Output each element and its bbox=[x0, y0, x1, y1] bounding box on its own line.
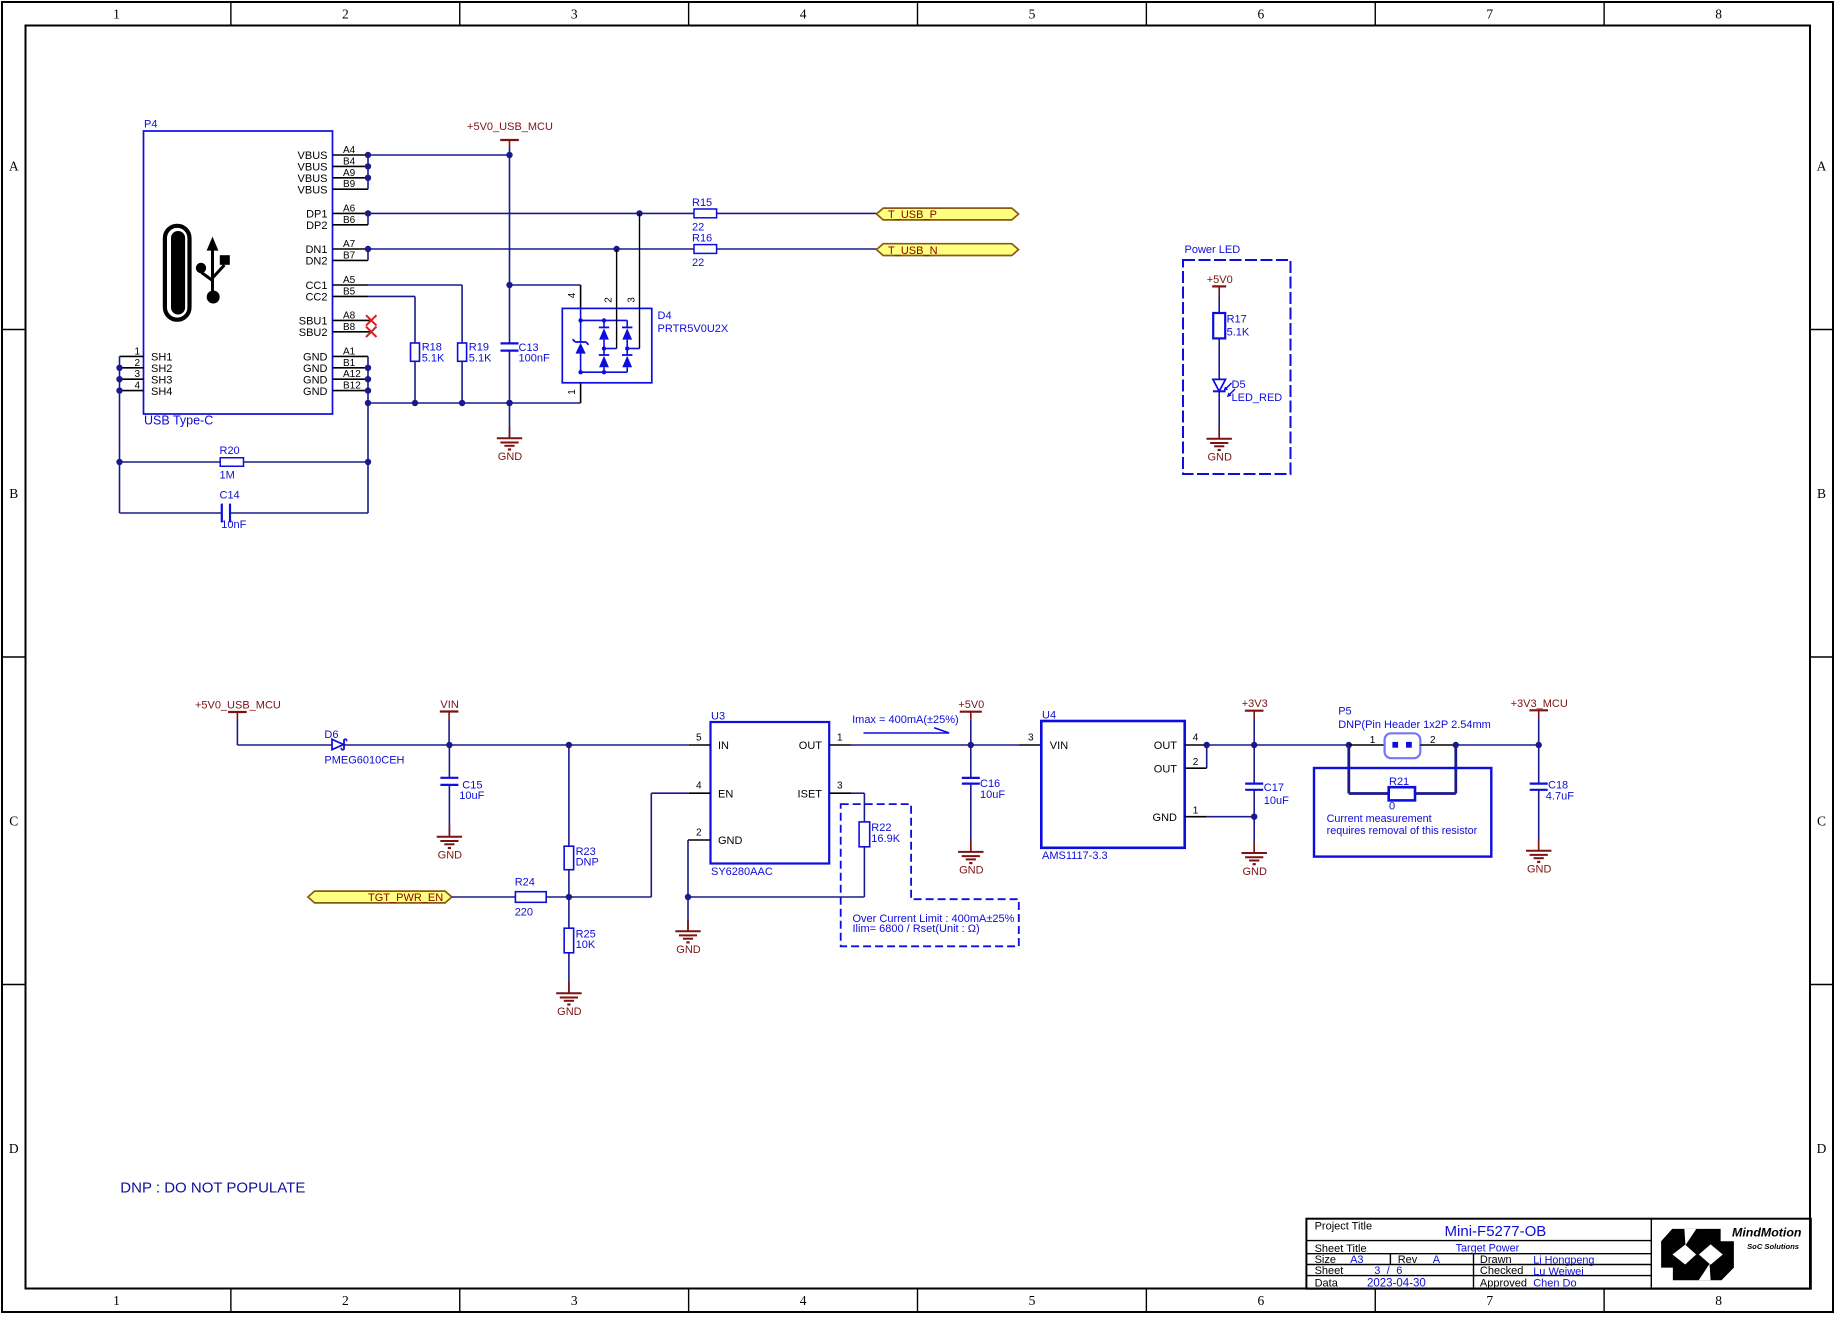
svg-text:CC1: CC1 bbox=[305, 280, 327, 292]
svg-text:2023-04-30: 2023-04-30 bbox=[1367, 1278, 1426, 1290]
svg-text:2: 2 bbox=[604, 297, 615, 303]
svg-text:+5V0: +5V0 bbox=[958, 699, 984, 711]
svg-text:B: B bbox=[1817, 486, 1826, 501]
svg-text:1: 1 bbox=[567, 389, 578, 395]
svg-text:Rev: Rev bbox=[1398, 1254, 1418, 1266]
svg-text:3: 3 bbox=[1028, 732, 1034, 743]
svg-text:C: C bbox=[1817, 813, 1826, 828]
svg-text:EN: EN bbox=[718, 788, 733, 800]
svg-text:A: A bbox=[1817, 158, 1827, 173]
svg-text:GND: GND bbox=[676, 944, 701, 956]
svg-text:5: 5 bbox=[696, 732, 702, 743]
svg-text:Checked: Checked bbox=[1480, 1265, 1523, 1277]
svg-text:5.1K: 5.1K bbox=[469, 352, 492, 364]
svg-text:A6: A6 bbox=[343, 203, 356, 214]
svg-text:Power LED: Power LED bbox=[1185, 244, 1241, 256]
svg-text:B9: B9 bbox=[343, 179, 356, 190]
svg-text:R20: R20 bbox=[220, 445, 240, 457]
svg-text:SBU1: SBU1 bbox=[299, 316, 328, 328]
svg-text:D: D bbox=[1817, 1141, 1827, 1156]
svg-text:A1: A1 bbox=[343, 346, 356, 357]
svg-text:5.1K: 5.1K bbox=[1227, 326, 1250, 338]
svg-text:3: 3 bbox=[627, 297, 638, 303]
svg-text:GND: GND bbox=[1527, 864, 1552, 876]
svg-text:B1: B1 bbox=[343, 358, 356, 369]
svg-text:B5: B5 bbox=[343, 286, 356, 297]
svg-text:GND: GND bbox=[303, 363, 328, 375]
svg-text:R16: R16 bbox=[692, 232, 712, 244]
svg-text:8: 8 bbox=[1715, 1293, 1722, 1308]
svg-text:TGT_PWR_EN: TGT_PWR_EN bbox=[368, 892, 443, 904]
svg-text:VIN: VIN bbox=[1050, 740, 1068, 752]
svg-text:IN: IN bbox=[718, 740, 729, 752]
svg-text:2: 2 bbox=[342, 1293, 349, 1308]
svg-text:CC2: CC2 bbox=[305, 292, 327, 304]
svg-text:1: 1 bbox=[837, 732, 843, 743]
svg-text:PMEG6010CEH: PMEG6010CEH bbox=[324, 754, 404, 766]
svg-text:VBUS: VBUS bbox=[298, 184, 328, 196]
svg-text:+5V0_USB_MCU: +5V0_USB_MCU bbox=[195, 700, 281, 712]
svg-text:Sheet: Sheet bbox=[1315, 1265, 1344, 1277]
svg-text:GND: GND bbox=[303, 352, 328, 364]
svg-text:C18: C18 bbox=[1548, 779, 1568, 791]
svg-text:R17: R17 bbox=[1227, 314, 1247, 326]
svg-text:B12: B12 bbox=[343, 381, 361, 392]
svg-text:Mini-F5277-OB: Mini-F5277-OB bbox=[1445, 1223, 1547, 1240]
svg-text:MindMotion: MindMotion bbox=[1732, 1225, 1802, 1239]
svg-text:DP2: DP2 bbox=[306, 220, 327, 232]
svg-text:1M: 1M bbox=[220, 469, 235, 481]
svg-text:VBUS: VBUS bbox=[298, 150, 328, 162]
svg-text:4: 4 bbox=[800, 6, 807, 21]
svg-text:6: 6 bbox=[1257, 1293, 1264, 1308]
svg-text:1: 1 bbox=[1193, 805, 1199, 816]
svg-text:B7: B7 bbox=[343, 250, 356, 261]
svg-text:B8: B8 bbox=[343, 322, 356, 333]
svg-text:OUT: OUT bbox=[1154, 740, 1178, 752]
svg-text:Drawn: Drawn bbox=[1480, 1254, 1512, 1266]
svg-text:1: 1 bbox=[113, 1293, 120, 1308]
svg-text:B6: B6 bbox=[343, 215, 356, 226]
svg-text:7: 7 bbox=[1486, 6, 1493, 21]
svg-text:4: 4 bbox=[134, 381, 140, 392]
svg-text:DNP: DNP bbox=[576, 856, 599, 868]
svg-text:4: 4 bbox=[1193, 732, 1199, 743]
svg-text:DNP(Pin Header 1x2P 2.54mm: DNP(Pin Header 1x2P 2.54mm bbox=[1338, 719, 1491, 731]
svg-text:A9: A9 bbox=[343, 168, 356, 179]
svg-text:ISET: ISET bbox=[798, 788, 823, 800]
svg-text:Approved: Approved bbox=[1480, 1278, 1527, 1290]
svg-text:4.7uF: 4.7uF bbox=[1546, 791, 1574, 803]
svg-text:requires removal of this resis: requires removal of this resistor bbox=[1327, 825, 1478, 837]
svg-text:3: 3 bbox=[1374, 1265, 1380, 1277]
svg-text:10K: 10K bbox=[576, 939, 596, 951]
svg-text:0: 0 bbox=[1389, 801, 1395, 813]
svg-text:PRTR5V0U2X: PRTR5V0U2X bbox=[658, 323, 729, 335]
svg-text:AMS1117-3.3: AMS1117-3.3 bbox=[1042, 850, 1108, 862]
svg-text:USB Type-C: USB Type-C bbox=[144, 414, 213, 428]
svg-text:D5: D5 bbox=[1232, 379, 1246, 391]
svg-text:+5V0: +5V0 bbox=[1207, 274, 1233, 286]
svg-text:B4: B4 bbox=[343, 156, 356, 167]
svg-text:+3V3_MCU: +3V3_MCU bbox=[1511, 698, 1568, 710]
svg-text:GND: GND bbox=[498, 451, 523, 463]
svg-text:Lu Weiwei: Lu Weiwei bbox=[1533, 1266, 1584, 1278]
svg-text:7: 7 bbox=[1486, 1293, 1493, 1308]
svg-text:A12: A12 bbox=[343, 369, 361, 380]
svg-text:GND: GND bbox=[303, 374, 328, 386]
svg-text:3: 3 bbox=[134, 369, 140, 380]
svg-text:Ilim= 6800 / Rset(Unit : Ω): Ilim= 6800 / Rset(Unit : Ω) bbox=[853, 923, 980, 935]
svg-text:OUT: OUT bbox=[799, 740, 823, 752]
svg-text:16.9K: 16.9K bbox=[871, 833, 900, 845]
svg-text:D6: D6 bbox=[324, 729, 338, 741]
svg-text:SH2: SH2 bbox=[151, 363, 172, 375]
svg-text:C16: C16 bbox=[980, 778, 1000, 790]
svg-text:Chen Do: Chen Do bbox=[1533, 1278, 1576, 1290]
svg-text:GND: GND bbox=[303, 386, 328, 398]
svg-text:GND: GND bbox=[1207, 452, 1232, 464]
svg-text:T_USB_P: T_USB_P bbox=[888, 209, 937, 221]
svg-text:D4: D4 bbox=[658, 310, 672, 322]
svg-text:2: 2 bbox=[696, 827, 702, 838]
svg-text:10uF: 10uF bbox=[980, 789, 1005, 801]
svg-text:1: 1 bbox=[134, 346, 140, 357]
svg-text:+5V0_USB_MCU: +5V0_USB_MCU bbox=[467, 121, 553, 133]
svg-text:GND: GND bbox=[1242, 866, 1267, 878]
svg-text:A8: A8 bbox=[343, 310, 356, 321]
svg-text:DP1: DP1 bbox=[306, 209, 327, 221]
svg-text:A5: A5 bbox=[343, 275, 356, 286]
svg-text:Project Title: Project Title bbox=[1315, 1221, 1372, 1233]
svg-text:5: 5 bbox=[1029, 1293, 1036, 1308]
svg-text:A4: A4 bbox=[343, 145, 356, 156]
svg-text:GND: GND bbox=[718, 835, 743, 847]
svg-text:Imax = 400mA(±25%): Imax = 400mA(±25%) bbox=[852, 714, 959, 726]
svg-text:2: 2 bbox=[342, 6, 349, 21]
svg-text:GND: GND bbox=[557, 1006, 582, 1018]
svg-text:6: 6 bbox=[1396, 1265, 1402, 1277]
svg-text:C17: C17 bbox=[1264, 782, 1284, 794]
svg-text:R21: R21 bbox=[1389, 776, 1409, 788]
svg-text:A7: A7 bbox=[343, 239, 356, 250]
svg-text:10uF: 10uF bbox=[1264, 795, 1289, 807]
svg-text:B: B bbox=[9, 486, 18, 501]
svg-text:DN2: DN2 bbox=[305, 256, 327, 268]
svg-text:GND: GND bbox=[959, 865, 984, 877]
svg-text:4: 4 bbox=[800, 1293, 807, 1308]
svg-text:220: 220 bbox=[515, 907, 533, 919]
svg-text:2: 2 bbox=[1193, 757, 1199, 768]
svg-text:5: 5 bbox=[1029, 6, 1036, 21]
svg-text:DNP : DO NOT POPULATE: DNP : DO NOT POPULATE bbox=[120, 1180, 305, 1197]
svg-text:A3: A3 bbox=[1350, 1254, 1363, 1266]
svg-text:Current measurement: Current measurement bbox=[1327, 813, 1432, 825]
svg-text:SH4: SH4 bbox=[151, 386, 172, 398]
svg-text:2: 2 bbox=[134, 358, 140, 369]
svg-text:VIN: VIN bbox=[440, 699, 458, 711]
svg-text:VBUS: VBUS bbox=[298, 173, 328, 185]
svg-text:2: 2 bbox=[1430, 735, 1436, 746]
svg-text:DN1: DN1 bbox=[305, 244, 327, 256]
svg-text:4: 4 bbox=[567, 292, 578, 298]
svg-text:U3: U3 bbox=[711, 711, 725, 723]
svg-text:SoC Solutions: SoC Solutions bbox=[1747, 1242, 1799, 1251]
svg-text:LED_RED: LED_RED bbox=[1232, 392, 1283, 404]
svg-text:P5: P5 bbox=[1338, 706, 1351, 718]
svg-text:SH3: SH3 bbox=[151, 374, 172, 386]
svg-text:Li Hongpeng: Li Hongpeng bbox=[1533, 1255, 1594, 1267]
svg-text:R15: R15 bbox=[692, 197, 712, 209]
svg-text:10uF: 10uF bbox=[459, 790, 484, 802]
svg-text:D: D bbox=[9, 1141, 19, 1156]
svg-text:100nF: 100nF bbox=[519, 353, 550, 365]
svg-text:VBUS: VBUS bbox=[298, 162, 328, 174]
svg-text:6: 6 bbox=[1257, 6, 1264, 21]
svg-text:3: 3 bbox=[837, 781, 843, 792]
svg-text:22: 22 bbox=[692, 257, 704, 269]
svg-text:OUT: OUT bbox=[1154, 763, 1178, 775]
svg-text:A: A bbox=[9, 158, 19, 173]
svg-text:SBU2: SBU2 bbox=[299, 327, 328, 339]
svg-text:3: 3 bbox=[571, 6, 578, 21]
svg-text:5.1K: 5.1K bbox=[422, 352, 445, 364]
svg-text:GND: GND bbox=[438, 850, 463, 862]
svg-text:A: A bbox=[1433, 1254, 1441, 1266]
svg-text:+3V3: +3V3 bbox=[1242, 698, 1268, 710]
svg-text:R24: R24 bbox=[515, 876, 535, 888]
svg-text:C14: C14 bbox=[220, 490, 240, 502]
svg-text:Size: Size bbox=[1315, 1254, 1336, 1266]
svg-text:1: 1 bbox=[113, 6, 120, 21]
svg-text:Target Power: Target Power bbox=[1456, 1243, 1520, 1255]
svg-text:Data: Data bbox=[1315, 1278, 1339, 1290]
svg-text:SH1: SH1 bbox=[151, 352, 172, 364]
svg-text:SY6280AAC: SY6280AAC bbox=[711, 866, 773, 878]
svg-text:T_USB_N: T_USB_N bbox=[888, 245, 938, 257]
svg-text:3: 3 bbox=[571, 1293, 578, 1308]
svg-text:1: 1 bbox=[1370, 735, 1376, 746]
svg-text:10nF: 10nF bbox=[221, 519, 246, 531]
svg-text:C: C bbox=[9, 813, 18, 828]
svg-text:GND: GND bbox=[1153, 812, 1178, 824]
svg-text:P4: P4 bbox=[144, 119, 157, 131]
svg-text:8: 8 bbox=[1715, 6, 1722, 21]
svg-text:4: 4 bbox=[696, 781, 702, 792]
svg-text:U4: U4 bbox=[1042, 710, 1056, 722]
